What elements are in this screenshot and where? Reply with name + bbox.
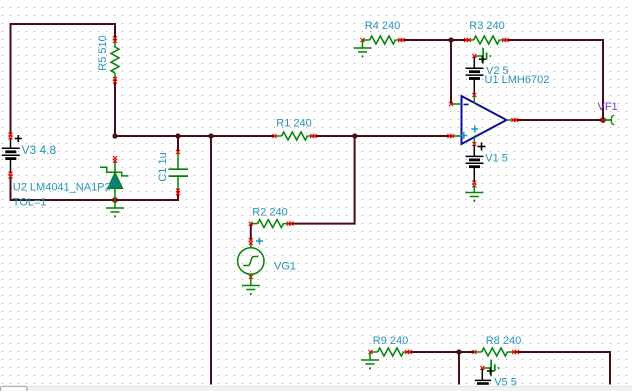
pin red-x VG1 top bbox=[249, 238, 253, 245]
wire right vertical down to VF1 node bbox=[602, 39, 604, 120]
label U2 LM4041_NA1P2 bbox=[13, 181, 111, 193]
pin red-x R5 top bbox=[113, 36, 117, 43]
pin red-x VG1 bottom bbox=[249, 275, 253, 279]
wire R2 left to VG1 top bbox=[250, 223, 252, 240]
svg-text:R2 240: R2 240 bbox=[252, 207, 287, 219]
wire junction to R8 left bbox=[458, 351, 475, 353]
op-amp inverting input stub bbox=[452, 103, 462, 105]
wire main bus left segment bbox=[114, 135, 275, 137]
ground at R4 left bbox=[354, 40, 372, 57]
pin red-x R2 right bbox=[287, 222, 294, 226]
pin red-x R1 left bbox=[273, 134, 277, 138]
plus sign V5 bbox=[487, 368, 494, 375]
wire R2 right horizontal bbox=[290, 223, 355, 225]
pin red-x R4 left bbox=[361, 38, 365, 42]
label R5 510 bbox=[97, 35, 109, 70]
svg-text:U1 LMH6702: U1 LMH6702 bbox=[485, 74, 550, 86]
battery cell green at V5 node bbox=[483, 360, 500, 377]
ground under U2 bbox=[106, 200, 124, 217]
plus sign V2 bbox=[479, 56, 486, 63]
wire R3 right horizontal to corner bbox=[507, 39, 605, 41]
wire op-amp output horizontal bbox=[514, 119, 604, 121]
label V1 5 bbox=[485, 153, 508, 165]
wire bottom-left horizontal to C1 bbox=[10, 199, 180, 201]
junction node U2 anode / ground on bottom wire bbox=[112, 197, 118, 203]
pin red-x op-amp V+ pin bbox=[472, 93, 476, 97]
op-amp non-inverting input stub bbox=[451, 135, 462, 137]
pin red-x V5 node bbox=[480, 366, 484, 370]
label V3 4.8 bbox=[22, 143, 57, 157]
resistor R9 bbox=[371, 348, 411, 356]
junction node R4/R3/inverting input bbox=[448, 37, 453, 42]
label U1 LMH6702 bbox=[485, 74, 550, 86]
svg-text:U2 LM4041_NA1P2: U2 LM4041_NA1P2 bbox=[13, 181, 111, 193]
wire V3 bottom vertical bbox=[10, 175, 12, 201]
pin red-x C1 top bbox=[176, 150, 180, 154]
svg-text:V3 4.8: V3 4.8 bbox=[22, 143, 57, 157]
svg-text:C1 1u: C1 1u bbox=[157, 152, 169, 181]
wire R5 top lead vertical bbox=[114, 23, 116, 40]
minus sign at inverting input bbox=[464, 104, 469, 106]
pin red-x R9 right bbox=[405, 350, 412, 354]
ground at R9 left bbox=[361, 352, 379, 369]
pin red-x op-amp non-inverting input bbox=[447, 134, 454, 138]
horizontal scrollbar thumb bbox=[1, 386, 28, 391]
svg-text:R8 240: R8 240 bbox=[486, 335, 521, 347]
pin red-x U2 top bbox=[113, 156, 117, 163]
svg-text:R1 240: R1 240 bbox=[276, 118, 311, 130]
wire main bus right segment bbox=[315, 135, 452, 137]
battery V1 bbox=[466, 145, 484, 182]
wire bottom-right vertical to bottom edge bbox=[609, 351, 611, 385]
pin red-x R1 right bbox=[310, 134, 317, 138]
junction node long vertical on main bus bbox=[208, 133, 213, 138]
battery V2 bbox=[466, 57, 484, 95]
label R8 240 bbox=[486, 335, 521, 347]
pin red-x V2 top node bbox=[472, 54, 476, 58]
wire C1 top stub bbox=[177, 135, 179, 152]
pin red-x R3 left bbox=[464, 38, 471, 42]
capacitor C1 bbox=[169, 152, 189, 192]
label V5 5 bbox=[494, 377, 517, 389]
battery V5 black lead and plates bbox=[475, 369, 491, 384]
pin red-x R8 left bbox=[473, 350, 477, 354]
label R4 240 bbox=[365, 20, 400, 32]
label R2 240 bbox=[252, 207, 287, 219]
label TOL=1 bbox=[13, 197, 47, 209]
plus sign V1 bbox=[478, 143, 486, 151]
wire bottom junction vertical to bottom edge bbox=[458, 351, 460, 385]
label R1 240 bbox=[276, 118, 311, 130]
resistor R5 vertical bbox=[111, 40, 119, 80]
resistor R2 bbox=[251, 220, 291, 228]
svg-text:R5 510: R5 510 bbox=[97, 35, 109, 70]
voltage pin VF1 bbox=[604, 115, 615, 125]
ground under VG1 bbox=[242, 278, 260, 295]
pin red-x V1 bottom bbox=[472, 181, 476, 188]
ground under V1 bbox=[465, 185, 483, 202]
wire long vertical at node down to bottom edge bbox=[210, 135, 212, 385]
op-amp V- pin stub bbox=[473, 137, 475, 144]
junction node VF1 output bbox=[600, 117, 606, 123]
pin red-x V3 top bbox=[9, 133, 13, 140]
pin red-x R2 left bbox=[249, 222, 253, 226]
wire vertical from bus down to R2 level bbox=[354, 135, 356, 224]
wire R4 to R3 horizontal bbox=[403, 39, 467, 41]
resistor R8 bbox=[475, 348, 515, 356]
pin red-x op-amp inverting input bbox=[449, 102, 453, 106]
label V2 5 bbox=[486, 65, 509, 77]
junction node C1 on main bus bbox=[175, 133, 180, 138]
resistor R3 bbox=[467, 36, 507, 44]
pin red-x V3 bottom bbox=[9, 172, 13, 179]
wire left vertical V3 top lead bbox=[10, 23, 12, 136]
wire C1 bottom stub vertical bbox=[177, 192, 179, 202]
plus sign at V+ supply pin bbox=[471, 126, 478, 133]
svg-text:R9 240: R9 240 bbox=[373, 335, 408, 347]
op-amp output stub bbox=[507, 119, 514, 121]
svg-text:R4 240: R4 240 bbox=[365, 20, 400, 32]
pin red-x op-amp V- pin / V1 top bbox=[472, 142, 476, 146]
pin red-x C1 bottom bbox=[176, 188, 180, 195]
label C1 1u bbox=[157, 152, 169, 181]
plus sign VG1 bbox=[256, 238, 263, 245]
generator VG1 bbox=[238, 243, 264, 277]
horizontal scrollbar track bbox=[0, 386, 632, 391]
pin red-x op-amp output bbox=[511, 118, 518, 122]
wire top-left horizontal from V3 column to R5 column bbox=[10, 23, 117, 25]
op-amp U1 LMH6702 triangle bbox=[462, 96, 507, 144]
pin red-x R5 bottom bbox=[113, 77, 117, 84]
diode U2 LM4041 zener bbox=[100, 160, 128, 199]
label VF1 bbox=[598, 101, 618, 113]
battery cell green at V2 node bbox=[475, 48, 491, 64]
svg-text:VG1: VG1 bbox=[274, 261, 296, 273]
junction node R9/R8 bbox=[456, 349, 461, 354]
label VG1 bbox=[274, 261, 296, 273]
plus sign V3 bbox=[15, 135, 22, 142]
svg-text:TOL=1: TOL=1 bbox=[13, 197, 47, 209]
wire R9 to junction horizontal bbox=[411, 351, 461, 353]
label R9 240 bbox=[373, 335, 408, 347]
pin red-x R3 right bbox=[502, 38, 509, 42]
svg-text:R3 240: R3 240 bbox=[469, 20, 504, 32]
battery V3 bbox=[2, 137, 20, 174]
pin red-x R9 left bbox=[369, 350, 373, 354]
pin red-x R4 right bbox=[398, 38, 405, 42]
pin red-x R8 right bbox=[512, 350, 519, 354]
resistor R4 bbox=[363, 36, 403, 44]
resistor R1 bbox=[275, 132, 315, 140]
wire R8 right horizontal to corner bbox=[515, 351, 612, 353]
wire inverting input vertical bbox=[450, 39, 452, 104]
svg-text:VF1: VF1 bbox=[598, 101, 618, 113]
label R3 240 bbox=[469, 20, 504, 32]
junction node R5/U2 on main bus bbox=[112, 133, 117, 138]
junction node R1/R2 on main bus bbox=[352, 133, 357, 138]
svg-text:V1 5: V1 5 bbox=[485, 153, 508, 165]
plus sign at non-inverting input bbox=[460, 132, 467, 139]
op-amp V+ pin stub bbox=[473, 96, 475, 104]
wire R5 bottom to main bus bbox=[114, 80, 116, 137]
